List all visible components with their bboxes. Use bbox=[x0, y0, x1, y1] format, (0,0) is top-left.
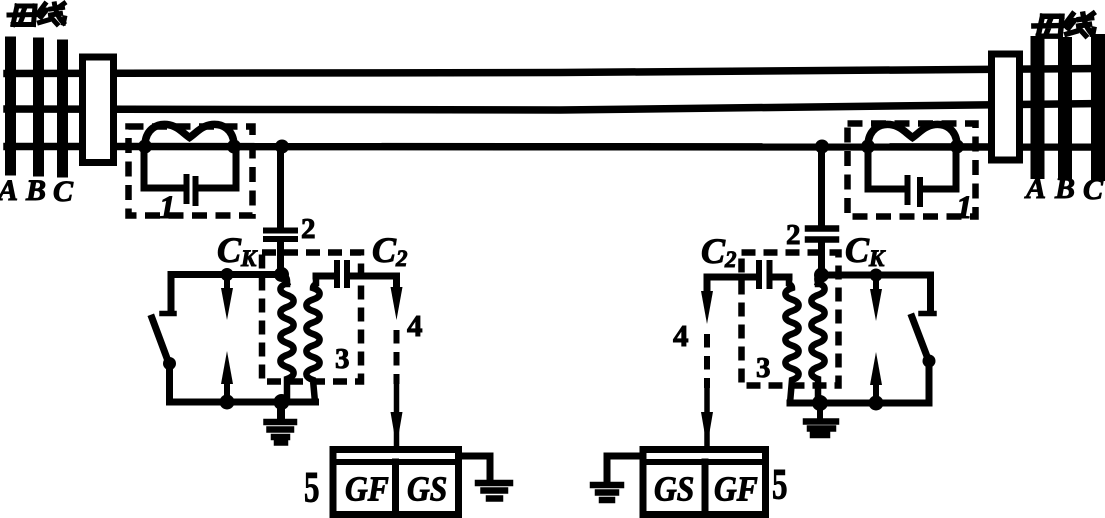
svg-text:A: A bbox=[1024, 172, 1046, 205]
top rail to earthing switch (right) bbox=[825, 275, 931, 311]
busbar phase C (right) bbox=[1091, 41, 1105, 174]
node transformer/ground on rail (right) bbox=[812, 395, 828, 411]
wire coupling capacitor to node (right) bbox=[818, 243, 825, 274]
svg-text:5: 5 bbox=[772, 462, 787, 509]
earthing switch fixed contact (left) bbox=[162, 311, 174, 317]
bottom rail (right) bbox=[790, 400, 929, 407]
wave trap 1 (right) inductor bbox=[868, 124, 957, 144]
busbar phase B (left) bbox=[33, 43, 44, 171]
wire switch to bottom rail (left) bbox=[166, 364, 173, 403]
protection panel 5 (left) outer box bbox=[333, 450, 459, 515]
ground symbol at transformer (right) bbox=[817, 403, 823, 419]
wire coupling capacitor to node (left) bbox=[277, 242, 284, 274]
wave trap 1 (left) tuning capacitor wiring bbox=[144, 148, 236, 188]
protection panel 5 (right) top strip line bbox=[643, 459, 767, 465]
ground symbol at panel (left) bbox=[478, 483, 510, 499]
busbar phase C (left) bbox=[57, 45, 68, 172]
node under coupling capacitor (left) bbox=[274, 267, 289, 282]
node top of protective gap (right) bbox=[870, 269, 883, 282]
wire from phase C down to coupling capacitor (left) bbox=[277, 150, 284, 226]
node gap/rail (right) bbox=[869, 396, 884, 411]
svg-text:C2: C2 bbox=[372, 230, 408, 271]
series capacitor C2 (left) plates bbox=[337, 263, 347, 285]
matching transformer 3 (left) primary winding bbox=[280, 275, 293, 403]
cable 4 (right) upper arrowhead bbox=[701, 291, 713, 324]
cable 4 (right) lower arrowhead bbox=[704, 390, 710, 444]
wire from phase C down to coupling capacitor (right) bbox=[818, 150, 825, 224]
svg-text:GF: GF bbox=[345, 470, 389, 509]
node on phase C at right trap output bbox=[950, 140, 964, 154]
node on phase C at right coupling tap bbox=[815, 140, 829, 154]
svg-text:GF: GF bbox=[714, 470, 758, 509]
wave trap 1 (left) tuning capacitor plates bbox=[187, 177, 196, 203]
svg-text:C: C bbox=[53, 175, 74, 208]
svg-text:C: C bbox=[1083, 173, 1104, 206]
protection panel 5 (right) divider bbox=[702, 462, 709, 518]
svg-text:3: 3 bbox=[335, 343, 350, 375]
earthing switch blade (left) bbox=[152, 318, 168, 361]
protective gap lower electrode (left) bbox=[221, 351, 233, 384]
svg-text:2: 2 bbox=[786, 219, 801, 251]
matching transformer 3 (right) secondary winding bbox=[785, 277, 798, 403]
series capacitor C2 (right) plates bbox=[759, 263, 770, 286]
earthing switch hinge node (left) bbox=[163, 357, 176, 370]
node transformer/ground on rail (left) bbox=[274, 394, 290, 410]
wave trap 1 (right) dashed enclosure bbox=[848, 124, 976, 217]
cable 4 (left) dashed run bbox=[394, 330, 400, 384]
svg-text:A: A bbox=[0, 174, 18, 207]
busbar phase B (right) bbox=[1058, 44, 1072, 172]
wave trap 1 (left) inductor bbox=[145, 124, 234, 144]
wire C2 to cable head (right) bbox=[707, 277, 756, 295]
top rail to earthing switch (left) bbox=[171, 275, 278, 312]
protection panel 5 (left) top strip line bbox=[333, 459, 459, 465]
protective gap upper electrode (right) bbox=[873, 276, 879, 295]
busbar label 母线 (left) bbox=[9, 4, 65, 25]
svg-text:4: 4 bbox=[673, 318, 689, 353]
protective gap lower electrode (right) bbox=[870, 352, 882, 385]
earthing switch hinge node (right) bbox=[923, 355, 936, 368]
wire phase A (top transmission line) bbox=[7, 69, 1100, 74]
coupling capacitor CK (right) plates bbox=[808, 229, 836, 240]
wave trap 1 (right) tuning capacitor wiring bbox=[868, 148, 956, 189]
wire phase B (middle transmission line) bbox=[7, 104, 1100, 111]
node top of protective gap (left) bbox=[221, 268, 234, 281]
ground symbol at transformer (left) bbox=[277, 402, 285, 418]
node on phase C at left trap input bbox=[138, 140, 152, 154]
bottom rail (left) bbox=[170, 399, 316, 406]
cable 4 (right) dashed run bbox=[704, 334, 710, 388]
panel ground wire (right) bbox=[607, 456, 642, 480]
busbar label 母线 (right) bbox=[1034, 14, 1094, 37]
earthing switch fixed contact (right) bbox=[921, 311, 934, 317]
node on phase C at left trap output bbox=[227, 140, 241, 154]
bus entry box (left) bbox=[83, 57, 114, 163]
svg-text:2: 2 bbox=[301, 213, 316, 245]
svg-text:B: B bbox=[25, 174, 46, 207]
wire switch to bottom rail (right) bbox=[926, 361, 933, 403]
svg-text:B: B bbox=[1054, 172, 1075, 205]
svg-text:1: 1 bbox=[159, 190, 176, 226]
svg-text:CK: CK bbox=[845, 230, 886, 271]
panel ground wire (left) bbox=[459, 456, 490, 479]
protection panel 5 (right) outer box bbox=[643, 450, 766, 515]
wire secondary to series capacitor C2 (right) bbox=[773, 274, 789, 281]
node under coupling capacitor (right) bbox=[814, 268, 829, 283]
cable 4 (left) lower arrowhead bbox=[394, 386, 400, 444]
svg-text:GS: GS bbox=[407, 470, 447, 509]
earthing switch blade (right) bbox=[912, 317, 928, 359]
node gap/rail (left) bbox=[220, 395, 235, 410]
wave trap 1 (left) dashed enclosure bbox=[129, 127, 253, 216]
wave trap 1 (right) tuning capacitor plates bbox=[908, 178, 921, 204]
node on phase C at right trap input bbox=[861, 140, 875, 154]
svg-text:3: 3 bbox=[756, 352, 771, 384]
svg-text:4: 4 bbox=[407, 308, 423, 343]
matching transformer 3 (left) secondary winding bbox=[306, 276, 319, 402]
cable 4 (left) upper arrowhead bbox=[391, 287, 403, 320]
svg-text:1: 1 bbox=[956, 190, 973, 226]
coupling capacitor CK (left) plates bbox=[266, 231, 295, 240]
svg-text:5: 5 bbox=[304, 465, 319, 512]
svg-text:CK: CK bbox=[217, 230, 258, 271]
matching transformer 3 (left) dashed enclosure bbox=[262, 253, 361, 382]
busbar phase A (right) bbox=[1031, 43, 1045, 172]
matching transformer 3 (right) dashed enclosure bbox=[742, 253, 839, 386]
protective gap upper electrode (left) bbox=[224, 276, 230, 294]
bus entry box (right) bbox=[992, 54, 1020, 160]
wire secondary to series capacitor C2 (left) bbox=[316, 273, 333, 280]
svg-text:C2: C2 bbox=[701, 231, 737, 272]
node on phase C at left coupling tap bbox=[275, 140, 289, 154]
ground symbol at panel (right) bbox=[593, 485, 621, 500]
busbar phase A (left) bbox=[5, 42, 16, 170]
wire phase C (bottom transmission line, carrier-coupled) bbox=[7, 143, 1102, 151]
wire C2 to cable head (left) bbox=[350, 276, 397, 292]
matching transformer 3 (right) primary winding bbox=[811, 275, 824, 403]
protection panel 5 (left) divider bbox=[392, 462, 399, 518]
svg-text:GS: GS bbox=[654, 470, 694, 509]
